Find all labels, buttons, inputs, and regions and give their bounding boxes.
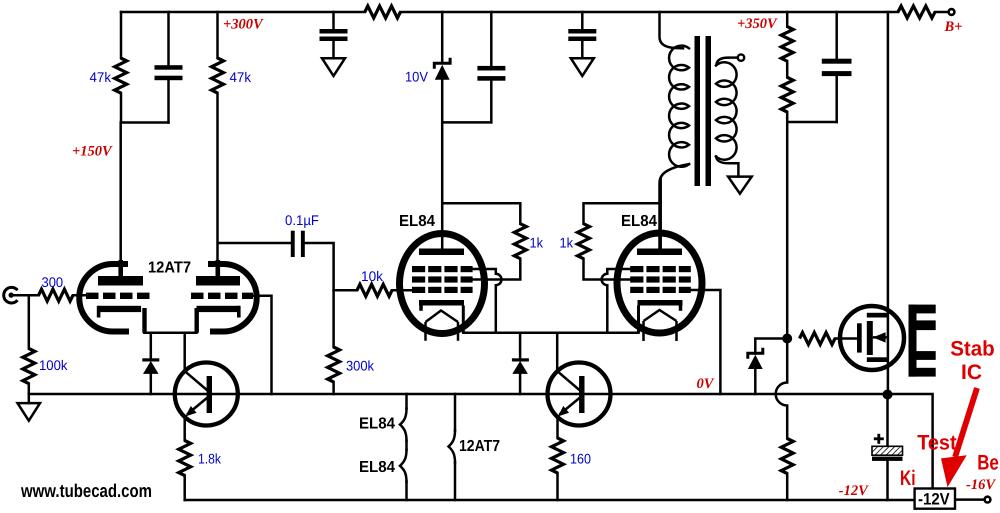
svg-text:300: 300	[42, 274, 64, 290]
svg-text:Stab: Stab	[950, 338, 995, 361]
svg-text:B+: B+	[944, 19, 963, 35]
svg-text:0.1µF: 0.1µF	[285, 212, 319, 228]
svg-text:EL84: EL84	[359, 416, 395, 433]
svg-text:+150V: +150V	[72, 144, 113, 160]
svg-text:1.8k: 1.8k	[198, 451, 222, 467]
svg-text:0V: 0V	[697, 376, 715, 392]
svg-text:EL84: EL84	[621, 213, 657, 230]
svg-text:10V: 10V	[405, 69, 429, 85]
svg-text:10k: 10k	[361, 268, 384, 284]
svg-text:12AT7: 12AT7	[459, 438, 500, 455]
svg-text:IC: IC	[961, 361, 982, 384]
svg-text:EL84: EL84	[399, 213, 435, 230]
svg-text:+300V: +300V	[223, 17, 264, 33]
svg-text:1k: 1k	[560, 235, 574, 251]
svg-text:www.tubecad.com: www.tubecad.com	[20, 480, 152, 501]
svg-text:100k: 100k	[39, 357, 68, 373]
svg-text:Ki: Ki	[900, 467, 916, 490]
svg-text:+350V: +350V	[737, 16, 778, 32]
svg-text:300k: 300k	[346, 358, 375, 374]
svg-text:-12V: -12V	[839, 483, 869, 499]
svg-text:Test: Test	[917, 432, 956, 455]
svg-text:47k: 47k	[90, 69, 112, 85]
svg-text:Be: Be	[977, 452, 999, 475]
svg-text:EL84: EL84	[359, 459, 395, 476]
svg-text:1k: 1k	[530, 235, 544, 251]
svg-text:-16V: -16V	[966, 477, 996, 493]
svg-text:47k: 47k	[230, 69, 252, 85]
svg-text:160: 160	[570, 451, 591, 467]
svg-text:12AT7: 12AT7	[148, 260, 191, 277]
svg-text:-12V: -12V	[918, 490, 950, 508]
